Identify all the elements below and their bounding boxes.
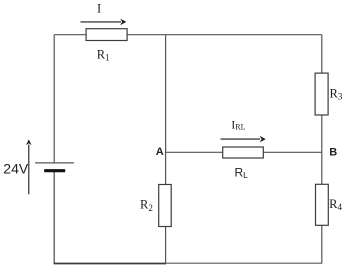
resistor R2 — [159, 185, 172, 227]
current arrow I over R1 — [81, 19, 127, 26]
svg-text:A: A — [156, 146, 164, 158]
resistor R1 — [86, 29, 127, 41]
wire top (node top rail) — [54, 34, 322, 36]
svg-text:B: B — [329, 146, 337, 158]
battery 24V positive plate — [35, 162, 74, 164]
wire A to B horizontal — [166, 151, 322, 153]
battery 24V negative plate — [44, 169, 65, 172]
resistor RL — [223, 147, 264, 158]
resistor R3 — [315, 73, 328, 115]
resistor R4 — [316, 184, 329, 225]
svg-text:I: I — [97, 1, 101, 15]
current arrow IRL over RL — [221, 136, 266, 143]
voltage arrow for 24V source — [26, 139, 32, 194]
svg-text:24V: 24V — [3, 161, 29, 177]
wire bottom rail right segment — [166, 262, 323, 264]
wire middle vertical (top rail through node A to bottom rail) — [165, 35, 167, 264]
wire bottom rail left segment (heavier) — [54, 263, 166, 265]
wire left upper (battery + to top rail) — [53, 35, 55, 163]
wire right vertical (top rail through node B to bottom rail) — [321, 35, 323, 264]
wire left lower (battery - to bottom rail) — [53, 171, 55, 264]
